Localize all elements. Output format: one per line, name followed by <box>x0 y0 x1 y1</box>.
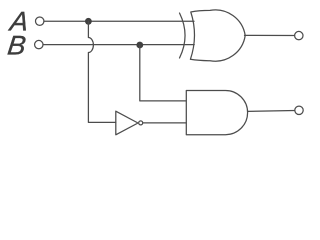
AND gate U3 body <box>186 91 247 135</box>
wire from B junction down to AND top input <box>140 45 186 101</box>
inverter U2 triangle <box>116 111 138 135</box>
input terminal A <box>36 17 44 25</box>
junction dot on A <box>85 18 92 25</box>
wire B horizontal <box>43 44 194 46</box>
AND output wire <box>248 110 295 113</box>
input terminal B <box>35 40 43 48</box>
wire A horizontal <box>44 20 194 22</box>
XOR gate U1 body <box>190 10 245 61</box>
inverter output wire <box>143 122 186 124</box>
wire from A junction down with hop over B, to inverter input <box>88 21 115 122</box>
inverter U2 bubble <box>139 121 143 125</box>
XOR gate U1 input arc <box>180 13 186 58</box>
XOR output terminal <box>295 31 303 39</box>
AND output terminal <box>295 106 303 114</box>
XOR output wire <box>245 34 295 36</box>
svg-text:B: B <box>6 30 28 61</box>
junction dot on B <box>136 42 143 49</box>
